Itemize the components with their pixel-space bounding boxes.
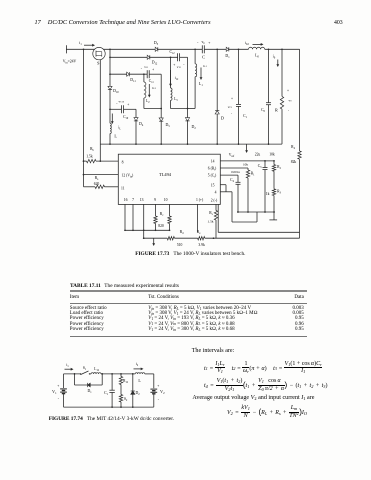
svg-text:D1: D1 <box>88 389 93 394</box>
svg-text:D4: D4 <box>139 122 144 127</box>
svg-text:iL0: iL0 <box>245 41 250 46</box>
svg-text:R: R <box>275 108 278 113</box>
svg-text:2 (-): 2 (-) <box>211 199 218 203</box>
svg-text:iL2: iL2 <box>152 86 156 90</box>
svg-text:10k: 10k <box>243 163 248 167</box>
svg-text:-: - <box>58 397 60 401</box>
svg-text:-: - <box>288 109 290 113</box>
svg-text:L0: L0 <box>255 53 259 58</box>
svg-text:S1: S1 <box>83 366 87 371</box>
svg-text:R4: R4 <box>291 145 295 150</box>
svg-text:Vin=24V: Vin=24V <box>63 60 77 65</box>
svg-text:i12: i12 <box>175 76 179 81</box>
svg-text:D3: D3 <box>154 41 159 46</box>
svg-text:C1: C1 <box>243 114 247 119</box>
svg-text:4: 4 <box>215 190 217 194</box>
svg-text:C4: C4 <box>230 178 234 183</box>
svg-text:S: S <box>97 60 100 65</box>
svg-text:i0: i0 <box>273 54 276 59</box>
svg-text:Rs: Rs <box>209 211 212 216</box>
svg-text:L12: L12 <box>94 367 99 372</box>
svg-text:1k: 1k <box>266 192 270 196</box>
svg-text:+: + <box>173 63 175 67</box>
svg-text:i2: i2 <box>136 362 139 367</box>
svg-text:10k: 10k <box>269 153 275 157</box>
svg-text:R1: R1 <box>251 172 255 177</box>
svg-text:L2: L2 <box>146 99 150 104</box>
svg-text:R3: R3 <box>277 190 281 195</box>
svg-text:vC1: vC1 <box>228 105 233 109</box>
svg-text:C1: C1 <box>104 391 109 396</box>
svg-text:15: 15 <box>211 183 215 187</box>
svg-text:-: - <box>231 112 233 116</box>
svg-text:-: - <box>183 63 185 67</box>
svg-text:+: + <box>127 103 129 107</box>
svg-text:S2: S2 <box>124 397 128 402</box>
svg-text:vC: vC <box>202 40 206 45</box>
svg-text:0.001u: 0.001u <box>231 170 240 174</box>
svg-text:Rd: Rd <box>180 230 184 235</box>
svg-text:+: + <box>231 97 233 101</box>
svg-text:14: 14 <box>211 160 215 164</box>
svg-text:V1: V1 <box>52 389 57 395</box>
svg-text:+: + <box>57 384 59 388</box>
svg-text:D10: D10 <box>113 89 119 94</box>
svg-text:D2: D2 <box>192 125 197 130</box>
svg-text:7: 7 <box>132 198 134 202</box>
svg-text:8: 8 <box>122 161 124 165</box>
svg-text:vC10: vC10 <box>118 100 124 104</box>
svg-text:5 (Ct): 5 (Ct) <box>208 174 217 179</box>
svg-text:D: D <box>221 116 224 121</box>
svg-text:1.5k: 1.5k <box>86 154 93 158</box>
svg-text:TL494: TL494 <box>159 172 172 177</box>
svg-text:iL: iL <box>118 126 121 131</box>
svg-text:22u: 22u <box>255 153 261 157</box>
svg-text:C11: C11 <box>149 79 155 84</box>
svg-text:+: + <box>208 41 210 45</box>
svg-text:D2: D2 <box>136 391 141 396</box>
svg-text:+: + <box>152 68 154 72</box>
svg-text:R12: R12 <box>123 379 129 384</box>
svg-text:+: + <box>287 89 289 93</box>
svg-text:L: L <box>114 134 117 139</box>
svg-text:82k: 82k <box>291 160 297 164</box>
svg-text:510: 510 <box>177 243 183 247</box>
svg-text:Vref: Vref <box>229 153 235 158</box>
svg-text:Ra: Ra <box>95 176 99 181</box>
svg-text:620: 620 <box>94 182 100 186</box>
svg-text:C10: C10 <box>123 115 129 120</box>
svg-text:+: + <box>157 384 159 388</box>
svg-text:v11: v11 <box>144 65 149 69</box>
svg-text:v0: v0 <box>289 99 293 103</box>
svg-text:16: 16 <box>124 198 128 202</box>
svg-text:12 (Vin): 12 (Vin) <box>122 174 135 179</box>
svg-text:820: 820 <box>158 224 164 228</box>
svg-text:C3: C3 <box>258 164 262 169</box>
svg-text:L: L <box>138 378 141 383</box>
svg-text:D11: D11 <box>130 78 136 83</box>
svg-text:-: - <box>197 41 199 45</box>
svg-text:9: 9 <box>154 198 156 202</box>
svg-text:V2: V2 <box>160 389 165 395</box>
svg-text:C0: C0 <box>261 108 265 113</box>
svg-text:3.9k: 3.9k <box>198 243 205 247</box>
svg-text:1 (+): 1 (+) <box>196 198 204 202</box>
svg-text:6 (Rt): 6 (Rt) <box>208 167 217 172</box>
svg-text:D5: D5 <box>166 123 171 128</box>
svg-text:v12: v12 <box>177 65 182 69</box>
svg-text:-: - <box>141 67 143 71</box>
svg-text:11: 11 <box>121 187 125 191</box>
svg-text:13: 13 <box>140 198 144 202</box>
svg-text:D12: D12 <box>152 61 158 66</box>
svg-text:L3: L3 <box>174 97 178 102</box>
svg-text:10: 10 <box>164 198 168 202</box>
svg-text:L1: L1 <box>199 82 203 87</box>
svg-text:-: - <box>158 398 160 402</box>
svg-text:C: C <box>202 54 205 59</box>
svg-text:D1: D1 <box>225 54 230 59</box>
svg-text:i1: i1 <box>66 363 69 368</box>
svg-text:Rb: Rb <box>90 147 94 152</box>
svg-text:Rc: Rc <box>160 212 164 217</box>
svg-text:R2: R2 <box>277 165 281 170</box>
svg-text:C12: C12 <box>169 50 175 55</box>
svg-text:iL1: iL1 <box>203 64 207 68</box>
svg-text:i1: i1 <box>79 41 82 46</box>
svg-text:1.5k: 1.5k <box>208 220 214 224</box>
